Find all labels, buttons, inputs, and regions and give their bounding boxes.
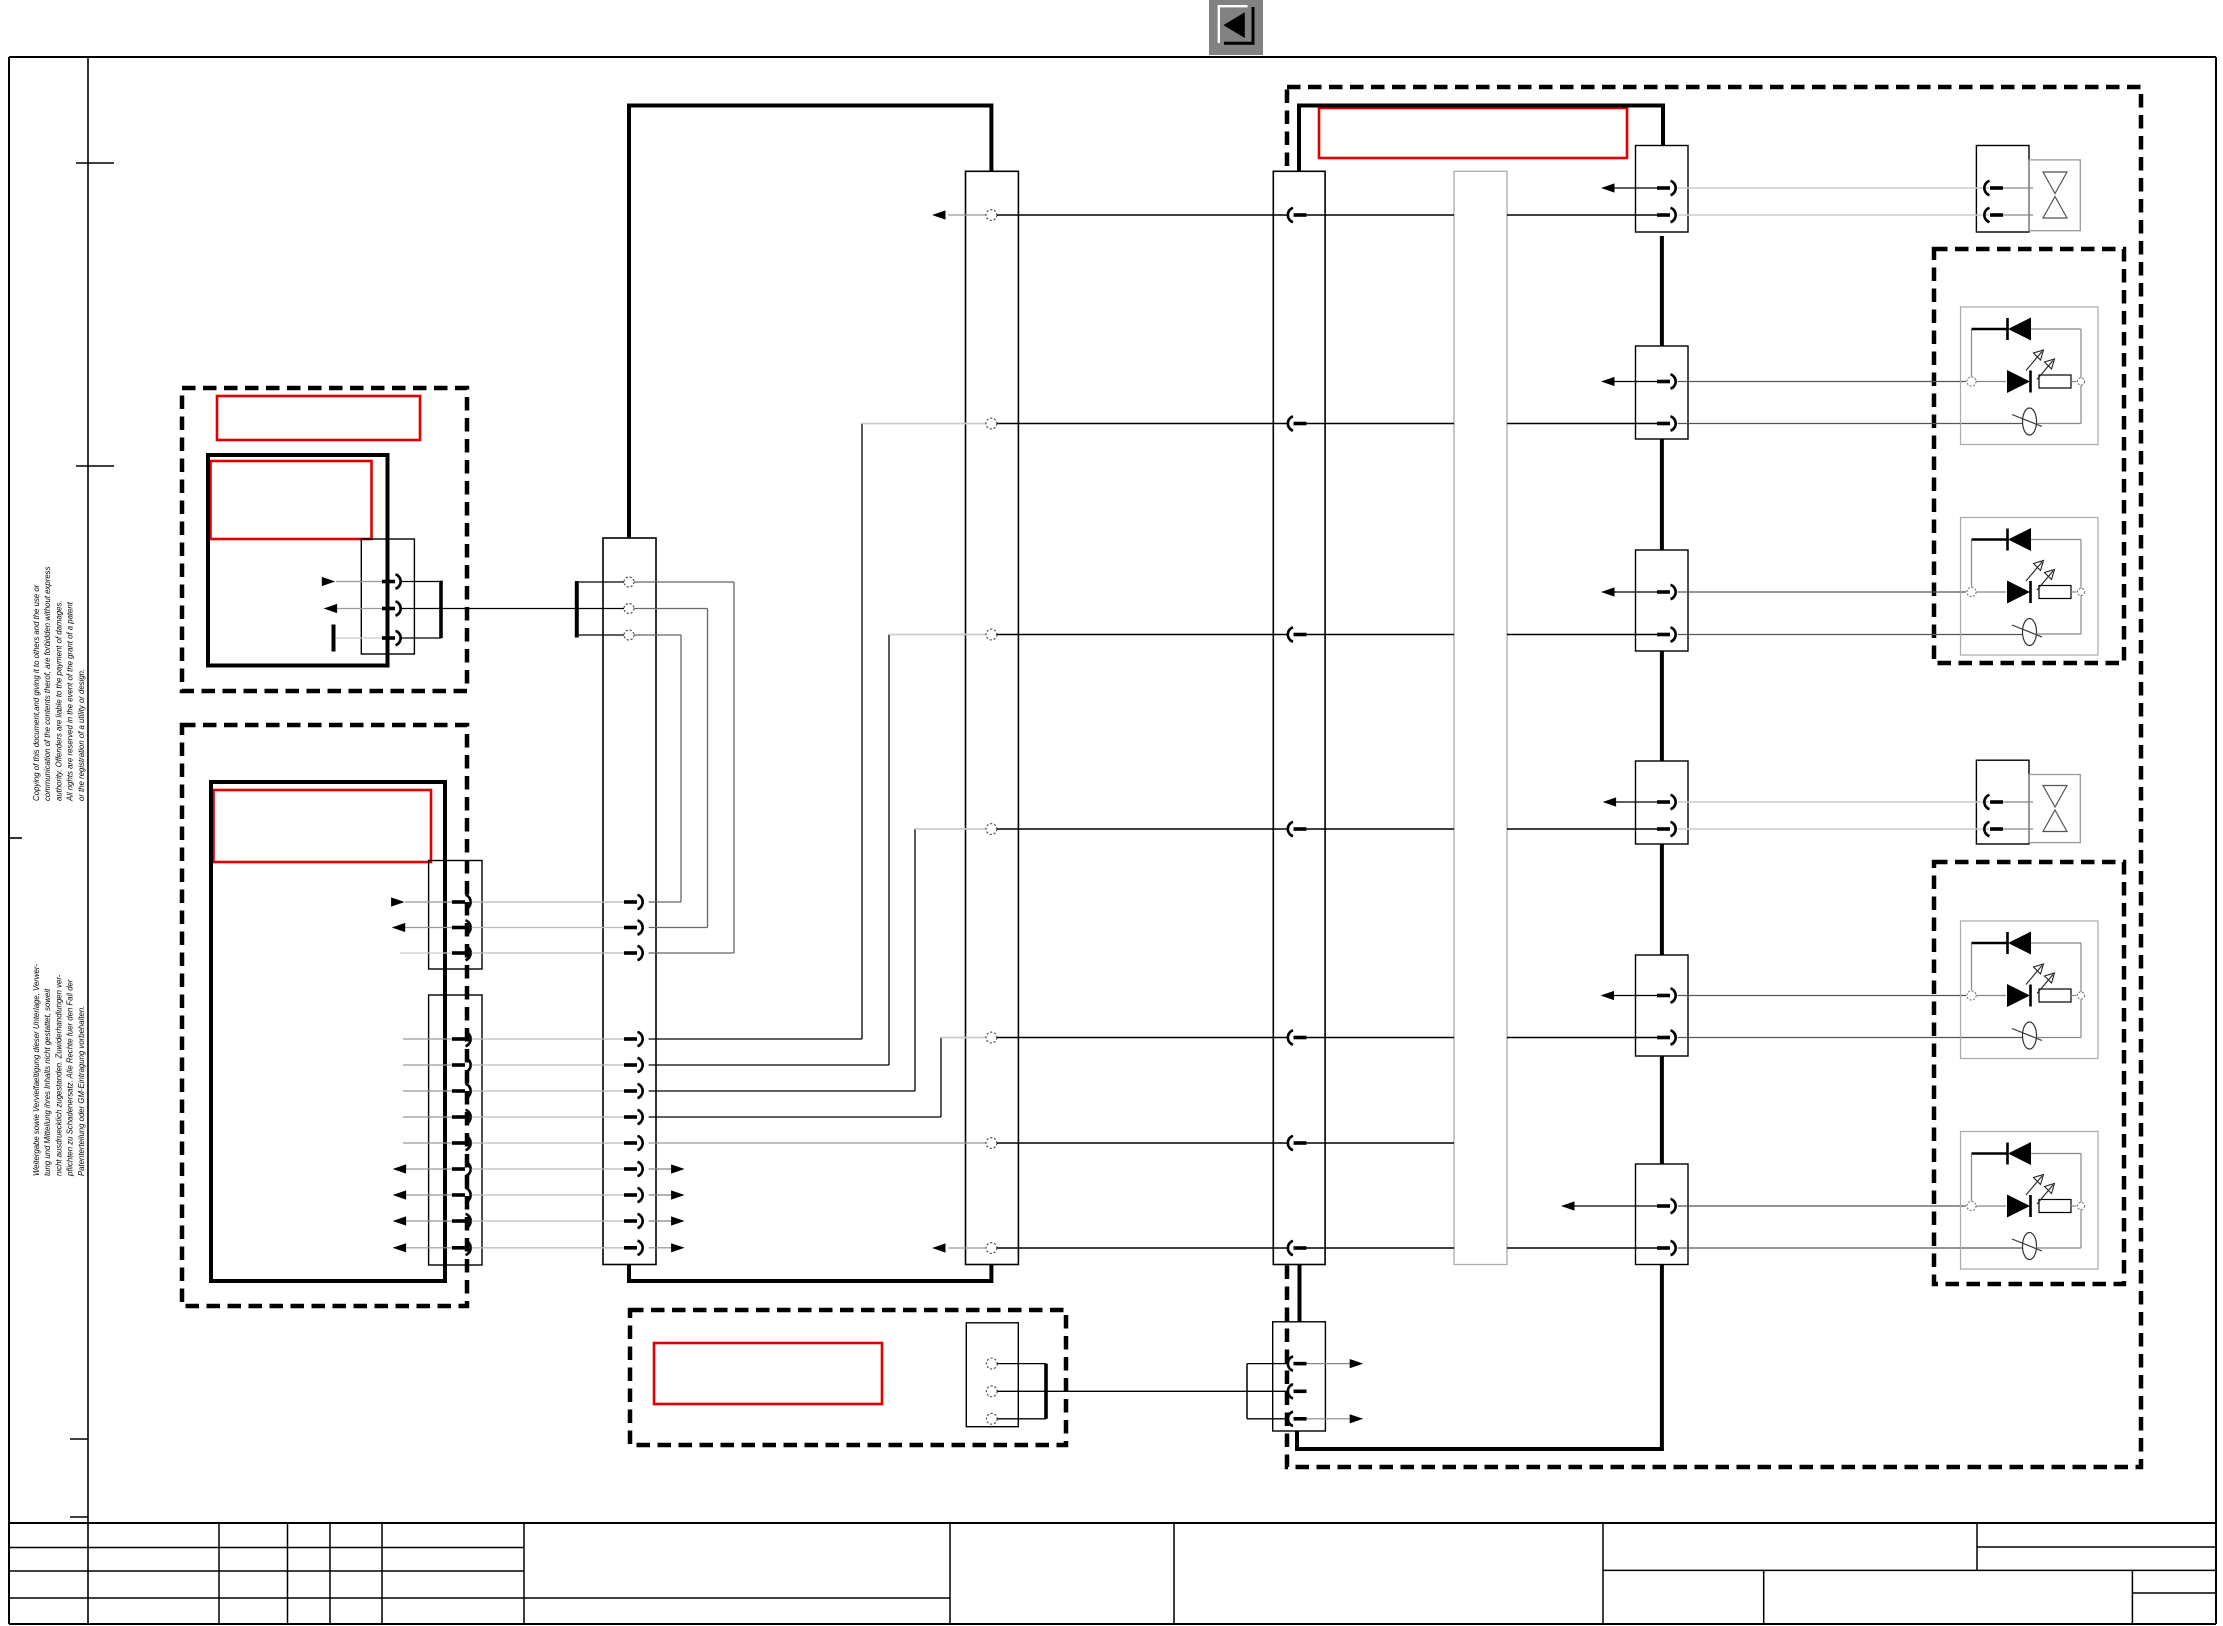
svg-text:or the registration of a utili: or the registration of a utility or desi… (77, 669, 86, 801)
svg-text:Weitergabe sowie Vervielfaelti: Weitergabe sowie Vervielfaeltigung diese… (32, 964, 41, 1176)
svg-text:communication of the contents: communication of the contents therof, ar… (43, 566, 52, 801)
svg-text:authority. Offenders are liabl: authority. Offenders are liable to the p… (54, 600, 63, 801)
svg-text:nicht ausdruecklich zugestande: nicht ausdruecklich zugestanden. Zuwider… (54, 974, 63, 1176)
svg-text:All rights are reserved in the: All rights are reserved in the event of … (66, 601, 75, 802)
svg-text:Copying of this document,and g: Copying of this document,and giving it t… (32, 584, 41, 801)
svg-text:Patenterteilung oder GM-Eintra: Patenterteilung oder GM-Eintragung vorbe… (77, 1006, 86, 1176)
svg-text:tung und Mitteilung ihres Inha: tung und Mitteilung ihres Inhalts nicht … (43, 988, 52, 1176)
svg-text:pflichten zu Schadenersatz. Al: pflichten zu Schadenersatz. Alle Rechte … (66, 979, 75, 1177)
